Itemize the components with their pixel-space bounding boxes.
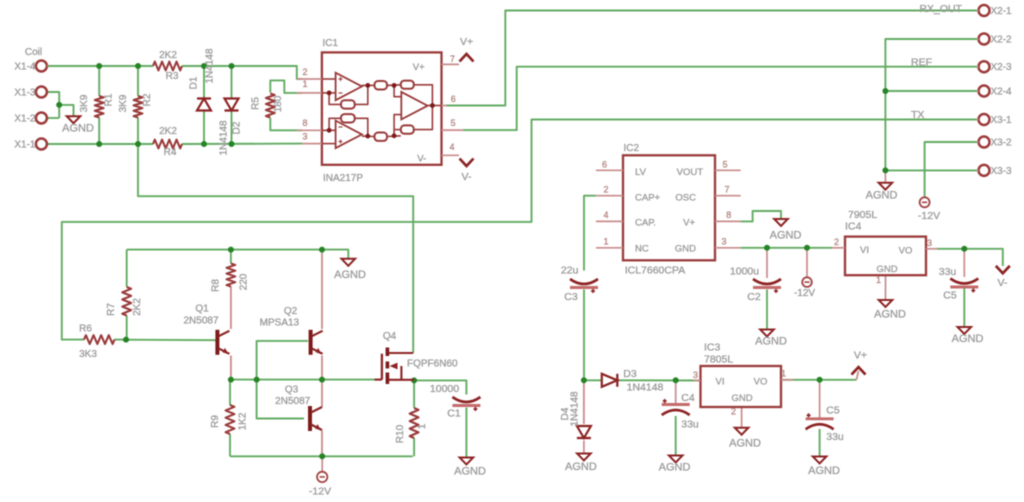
svg-text:2: 2	[834, 237, 839, 247]
resistor R2 3K9	[134, 96, 143, 118]
svg-text:2: 2	[302, 67, 307, 77]
wire R5 top to IC1 pin1	[270, 80, 302, 93]
wire AGND bus stub	[884, 170, 886, 182]
wire R6 to Q1 base	[115, 339, 217, 342]
svg-text:R4: R4	[164, 147, 177, 158]
junction X3-3 AGND bus	[882, 167, 888, 173]
svg-text:NC: NC	[635, 244, 649, 255]
svg-text:33u: 33u	[939, 266, 957, 278]
svg-text:C5: C5	[826, 405, 840, 417]
wire X1-2 to AGND node	[47, 117, 59, 119]
wire X3-3 to AGND bus	[885, 169, 977, 171]
capacitor C2 1000u	[753, 279, 781, 284]
wire D3 to C4 node to IC3 VI	[619, 379, 701, 381]
wire X1-3 to AGND node	[47, 92, 59, 118]
IC1 pin 3	[302, 143, 322, 145]
svg-text:3: 3	[693, 370, 698, 380]
svg-text:3K9: 3K9	[118, 94, 129, 112]
svg-text:D1: D1	[188, 76, 199, 89]
svg-text:VI: VI	[860, 245, 869, 256]
svg-text:1K2: 1K2	[238, 412, 249, 430]
svg-text:X2-1: X2-1	[991, 6, 1013, 17]
wire R7 leads	[126, 250, 128, 287]
svg-text:AGND: AGND	[952, 333, 984, 345]
svg-text:R3: R3	[166, 71, 179, 82]
wire D4 top lead	[583, 380, 585, 424]
resistor R9 1K2	[226, 405, 235, 434]
svg-text:AGND: AGND	[874, 309, 906, 321]
IC1 internal output amp	[401, 92, 427, 120]
junction C3 D3 D4	[581, 377, 587, 383]
svg-text:4: 4	[449, 142, 454, 152]
wire IC4 GND pin to AGND	[885, 275, 887, 299]
IC1 pin 2	[297, 78, 322, 80]
IC1 internal wiring	[322, 78, 336, 80]
resistor R1 3K9	[95, 96, 104, 118]
svg-text:AGND: AGND	[866, 190, 898, 202]
wire R9 leads	[229, 380, 231, 405]
junction D2 top	[229, 63, 235, 69]
svg-text:R8: R8	[211, 279, 222, 292]
svg-text:2K2: 2K2	[159, 50, 177, 61]
ground AGND at C1	[460, 458, 474, 465]
IC1 internal resistor R2a	[401, 81, 414, 89]
capacitor C5 33u at IC3 output	[806, 417, 834, 420]
svg-text:Q2: Q2	[284, 306, 298, 317]
svg-text:AGND: AGND	[659, 462, 691, 474]
svg-text:D2: D2	[232, 121, 243, 134]
wire X2-2 to AGND bus	[885, 39, 977, 170]
svg-text:7: 7	[724, 185, 729, 195]
svg-text:1000u: 1000u	[730, 266, 759, 278]
connector X3-2	[979, 137, 990, 148]
svg-text:2: 2	[603, 185, 608, 195]
svg-text:V+: V+	[854, 350, 867, 362]
svg-text:IC1: IC1	[323, 38, 339, 49]
op-amp IC1 INA217P box	[322, 52, 442, 164]
connector X1-3	[36, 87, 47, 98]
svg-text:7: 7	[450, 54, 455, 64]
wire -12V stub at negative rail	[321, 456, 323, 472]
junction R1 top	[96, 63, 102, 69]
svg-text:GND: GND	[876, 264, 897, 275]
svg-text:-12V: -12V	[794, 288, 815, 299]
svg-text:3: 3	[927, 238, 932, 248]
svg-text:AGND: AGND	[62, 123, 94, 135]
svg-text:1: 1	[603, 237, 608, 247]
diode D1 1N4148	[197, 97, 211, 99]
svg-text:RX_OUT: RX_OUT	[919, 3, 962, 15]
junction Q2 Q3 mid rail	[319, 377, 325, 383]
svg-text:X1-4: X1-4	[14, 62, 36, 73]
supply V+ at IC3 output	[852, 367, 866, 375]
connector X3-1 TX	[979, 114, 990, 125]
svg-text:V-: V-	[462, 171, 472, 183]
resistor R4 2K2	[153, 140, 182, 149]
connector X1-1	[36, 139, 47, 150]
wire X2-4 to AGND bus	[885, 90, 977, 92]
wire IC2 pin3 GND rail to IC4 VI	[741, 247, 832, 249]
wire coil top rail X1-4 to R3	[47, 65, 153, 67]
ground AGND at D4	[577, 454, 591, 461]
IC1 internal resistor R1b	[375, 133, 388, 141]
svg-text:-12V: -12V	[918, 210, 940, 222]
IC2 pin 8 V+	[715, 220, 741, 222]
svg-text:3: 3	[721, 237, 726, 247]
svg-text:C5: C5	[943, 290, 957, 302]
junction C5 at IC4 output	[961, 246, 967, 252]
IC2 pin 2 CAP+	[596, 195, 623, 197]
resistor R3 2K2	[153, 62, 182, 71]
wire Q2 Q3 base tie	[257, 341, 308, 419]
svg-text:CAP.: CAP.	[635, 218, 656, 229]
supply -12V at negative rail	[317, 472, 327, 482]
svg-text:ICL7660CPA: ICL7660CPA	[625, 265, 686, 277]
wire Q3 collector to mid rail	[321, 380, 323, 407]
svg-text:1N4148: 1N4148	[205, 48, 216, 83]
svg-text:2: 2	[731, 407, 736, 417]
svg-text:Q3: Q3	[285, 385, 299, 396]
svg-text:X3-1: X3-1	[991, 115, 1013, 126]
IC1 pin 1	[297, 92, 322, 94]
IC2 pin 4 CAP-	[596, 220, 623, 222]
svg-text:VO: VO	[899, 246, 913, 257]
IC1 internal nodes	[327, 91, 332, 96]
wire Q4 source node to C1	[414, 380, 466, 394]
svg-text:IC4: IC4	[845, 221, 862, 233]
wire Q2 emitter to mid rail	[321, 356, 323, 380]
svg-text:220: 220	[239, 273, 250, 290]
wire Q1 emitter to mid rail	[230, 356, 232, 380]
wire C5 at IC4 output leads	[963, 249, 965, 277]
svg-text:6: 6	[451, 94, 456, 104]
wire V+ arrow riser	[856, 371, 858, 380]
ground AGND at collector rail	[342, 259, 356, 266]
IC4 7905L box	[845, 237, 926, 276]
junction -12V GND rail	[804, 245, 810, 251]
wire D1 leads	[203, 66, 205, 98]
wire top rail R3 to IC1 pin2 corner	[182, 66, 302, 79]
svg-text:Q1: Q1	[195, 304, 209, 315]
IC1 pin 5	[442, 129, 463, 131]
capacitor C1 10000	[452, 397, 480, 402]
svg-text:X3-2: X3-2	[991, 138, 1013, 149]
supply -12V at X3-2	[920, 197, 930, 207]
svg-text:7805L: 7805L	[704, 354, 733, 366]
junction Q2 collector rail	[319, 247, 325, 253]
junction C2 GND rail	[764, 245, 770, 251]
svg-text:2N5087: 2N5087	[275, 396, 310, 407]
supply V- at IC4 output	[996, 266, 1010, 274]
capacitor C3 22u	[570, 279, 598, 284]
junction R2 top	[135, 63, 141, 69]
wire mid rail Q1 emitter to Q4 gate	[231, 379, 375, 381]
wire Q3 emitter to negative rail	[321, 431, 323, 457]
svg-text:X3-3: X3-3	[991, 166, 1013, 177]
svg-text:33u: 33u	[681, 419, 699, 431]
wire D2 leads	[231, 66, 233, 98]
diode D4 1N4148	[577, 426, 591, 438]
junction D1 bottom	[201, 141, 207, 147]
ground AGND at C5 IC4	[958, 327, 972, 334]
wire R8 bottom to Q1 collector	[230, 287, 232, 330]
junction Q4 source R10 C1	[411, 377, 417, 383]
transistor Q1 2N5087	[215, 330, 219, 355]
svg-text:10000: 10000	[430, 383, 459, 395]
IC1 pin 8	[297, 129, 322, 131]
junction -12V negative rail	[319, 453, 325, 459]
svg-text:V+: V+	[683, 218, 695, 229]
junction R6 R7 Q1 base	[123, 337, 129, 343]
wire AGND tap at coil connector	[59, 105, 73, 116]
junction D3 C4 IC3	[673, 377, 679, 383]
capacitor C4 33u	[662, 403, 690, 406]
transistor Q2 MPSA13	[309, 330, 313, 355]
svg-text:C4: C4	[681, 392, 695, 404]
ground AGND at coil connector	[67, 116, 81, 123]
IC1 pin 7 V+ supply	[442, 63, 460, 65]
svg-text:OSC: OSC	[675, 192, 696, 203]
svg-text:MPSA13: MPSA13	[260, 318, 300, 329]
connector X3-3	[979, 165, 990, 176]
svg-text:AGND: AGND	[334, 269, 366, 281]
wire net TX: X3-1 to base network	[62, 120, 977, 340]
junction Q1 emitter mid rail	[228, 377, 234, 383]
svg-text:LV: LV	[635, 167, 647, 178]
svg-text:FQPF6N60: FQPF6N60	[407, 359, 458, 370]
svg-text:X2-2: X2-2	[991, 35, 1013, 46]
svg-text:AGND: AGND	[565, 461, 597, 473]
ground AGND bus	[879, 183, 893, 190]
svg-text:AGND: AGND	[729, 438, 761, 450]
svg-text:-12V: -12V	[309, 486, 331, 498]
svg-text:V-: V-	[417, 154, 426, 165]
svg-text:2K2: 2K2	[132, 298, 143, 316]
wire gate drive from bottom rail node to Q4 drain	[138, 144, 413, 353]
wire C5 at IC3 output leads	[819, 380, 821, 418]
wire X3-2 to -12V supply	[925, 142, 977, 197]
svg-text:IC2: IC2	[624, 143, 640, 154]
IC2 pin 6 LV	[596, 169, 623, 171]
svg-text:R5: R5	[251, 97, 262, 110]
connector X1-2	[36, 113, 47, 124]
svg-text:1N4148: 1N4148	[218, 120, 229, 155]
svg-text:C3: C3	[564, 291, 578, 303]
svg-text:7905L: 7905L	[848, 209, 877, 221]
connector X2-4	[979, 86, 990, 97]
IC2 pin 3 GND	[715, 247, 741, 249]
connector X1-4	[36, 61, 47, 72]
svg-text:X1-3: X1-3	[14, 88, 36, 99]
junction R1 bottom	[96, 141, 102, 147]
wire -12V stub at GND rail	[806, 248, 808, 277]
ground AGND at C4	[669, 456, 683, 463]
svg-text:1: 1	[417, 423, 428, 429]
svg-text:8: 8	[726, 210, 731, 220]
svg-text:22u: 22u	[561, 265, 579, 277]
wire bottom rail R4 to IC1 pin3	[182, 143, 302, 145]
junction coil AGND	[56, 102, 62, 108]
svg-text:5: 5	[722, 160, 727, 170]
IC2 pin 1 NC	[596, 247, 623, 249]
resistor R10 1	[410, 408, 419, 438]
svg-text:33u: 33u	[826, 431, 844, 443]
IC1 internal resistor RG2	[341, 114, 355, 122]
svg-text:3K9: 3K9	[79, 94, 90, 112]
svg-text:TX: TX	[911, 109, 924, 121]
svg-text:VO: VO	[754, 377, 768, 388]
svg-text:INA217P: INA217P	[323, 173, 363, 184]
IC2 pin 5 VOUT	[715, 169, 741, 171]
junction D1 top	[201, 63, 207, 69]
connector X2-3 REF	[979, 61, 990, 72]
svg-text:GND: GND	[731, 393, 752, 404]
capacitor C5 33u at IC4 output	[950, 279, 978, 284]
IC1 internal resistor RG1	[341, 100, 355, 108]
connector X2-2	[979, 34, 990, 45]
svg-text:R2: R2	[142, 93, 153, 106]
wire net RX_OUT: IC1 pin6 to X2-1	[446, 11, 977, 106]
svg-text:V+: V+	[413, 62, 425, 73]
IC1 internal input amp B	[336, 121, 362, 149]
wire R10 leads	[413, 380, 415, 408]
svg-text:Q4: Q4	[383, 331, 397, 342]
wire R2 vertical leads	[137, 66, 139, 96]
junction R8 collector rail	[228, 247, 234, 253]
svg-text:GND: GND	[675, 244, 696, 255]
svg-text:IC3: IC3	[704, 342, 721, 354]
svg-text:R9: R9	[210, 415, 221, 428]
svg-text:VOUT: VOUT	[677, 167, 704, 178]
svg-text:AGND: AGND	[454, 466, 486, 478]
junction base tie mid rail	[254, 377, 260, 383]
svg-text:4: 4	[603, 210, 608, 220]
transistor Q3 2N5087	[308, 406, 312, 431]
IC2 ICL7660CPA box	[623, 155, 715, 260]
IC1 pin 6	[442, 105, 447, 107]
svg-text:V+: V+	[460, 36, 473, 48]
wire C2 leads	[766, 248, 768, 278]
svg-text:1N4148: 1N4148	[570, 391, 581, 426]
svg-text:R6: R6	[79, 324, 92, 335]
resistor R5 180	[266, 94, 275, 118]
ground AGND at IC2 pin8	[774, 219, 788, 226]
svg-text:R10: R10	[395, 424, 406, 443]
wire D4 to AGND	[583, 441, 585, 454]
wire R8 top lead	[230, 250, 232, 264]
resistor R7 2K2	[122, 287, 131, 316]
wire net REF: IC1 pin5 to X2-3	[463, 67, 977, 130]
IC3 7805L box	[701, 366, 782, 407]
transistor Q4 FQPF6N60 MOSFET	[381, 354, 383, 380]
wire IC3 GND pin to AGND	[741, 407, 743, 427]
wire IC2 pin8 to AGND	[741, 211, 781, 221]
svg-text:X1-1: X1-1	[14, 140, 36, 151]
wire IC3 output to V+ supply	[781, 379, 856, 381]
svg-text:3: 3	[302, 132, 307, 142]
wire C4 leads	[675, 380, 677, 403]
junction D2 bottom	[229, 141, 235, 147]
IC4 pin 2 VI	[832, 247, 845, 249]
svg-text:1: 1	[876, 275, 881, 285]
IC1 internal resistor R1a	[375, 81, 388, 90]
svg-text:8: 8	[302, 118, 307, 128]
svg-text:2N5087: 2N5087	[183, 316, 218, 327]
svg-text:REF: REF	[911, 57, 932, 69]
svg-text:AGND: AGND	[770, 230, 802, 242]
svg-text:X2-4: X2-4	[991, 87, 1013, 98]
svg-text:C1: C1	[447, 408, 461, 420]
svg-text:AGND: AGND	[755, 336, 787, 348]
svg-text:C2: C2	[747, 291, 761, 303]
svg-text:R1: R1	[104, 93, 115, 106]
ground AGND at IC3	[735, 428, 749, 435]
IC1 pin 4 V- supply	[442, 154, 460, 156]
connector X2-1 RX_OUT	[979, 5, 990, 16]
junction R2 bottom / gate net	[135, 141, 141, 147]
wire negative rail	[230, 455, 413, 457]
diode D3 1N4148	[602, 374, 618, 387]
svg-text:1: 1	[302, 79, 307, 89]
svg-text:AGND: AGND	[808, 465, 840, 477]
ground AGND at C2	[760, 330, 774, 337]
ground AGND at C5 IC3	[813, 457, 827, 464]
svg-text:3K3: 3K3	[79, 349, 97, 360]
IC3 pin 1 VO	[781, 379, 793, 381]
svg-text:VI: VI	[716, 377, 725, 388]
svg-text:1N4148: 1N4148	[627, 382, 664, 394]
svg-text:X2-3: X2-3	[991, 62, 1013, 73]
wire C3 to D3 D4 node	[583, 290, 585, 381]
junction C5 at IC3 output	[817, 377, 823, 383]
IC1 internal resistor R2b	[401, 125, 414, 133]
wire coil bottom rail X1-1 to R4	[47, 143, 153, 145]
supply -12V at GND rail	[802, 277, 812, 287]
junction X2-4 AGND bus	[882, 88, 888, 94]
resistor R6 3K3	[84, 335, 115, 344]
IC3 pin 3 VI	[694, 380, 701, 382]
wire R5 bottom to IC1 pin8	[270, 118, 302, 130]
wire R1 vertical leads	[98, 66, 100, 96]
ground AGND at IC4	[879, 300, 893, 307]
wire C1 to AGND	[465, 408, 467, 458]
svg-text:D3: D3	[623, 368, 637, 380]
svg-text:6: 6	[602, 160, 607, 170]
svg-text:Coil: Coil	[25, 47, 42, 58]
svg-text:5: 5	[450, 118, 455, 128]
diode D2 1N4148	[225, 99, 239, 111]
svg-text:X1-2: X1-2	[14, 114, 36, 125]
wire collector rail with AGND tap	[127, 250, 349, 259]
IC2 pin 7 OSC	[715, 195, 741, 197]
svg-text:R7: R7	[106, 303, 117, 316]
svg-text:CAP+: CAP+	[635, 192, 661, 203]
svg-text:2K2: 2K2	[159, 126, 177, 137]
wire IC2 pin2 to C3	[584, 196, 596, 271]
IC1 internal input amp A	[336, 73, 362, 101]
wire Q2 collector to collector rail	[321, 250, 323, 329]
wire IC4 output to V-	[937, 249, 1003, 266]
resistor R8 220	[227, 264, 236, 287]
IC4 pin 3 VO	[926, 248, 937, 250]
wire D3 left lead from node	[584, 379, 602, 381]
svg-text:V-: V-	[997, 277, 1007, 289]
svg-text:1: 1	[781, 369, 786, 379]
svg-text:180: 180	[273, 95, 284, 112]
